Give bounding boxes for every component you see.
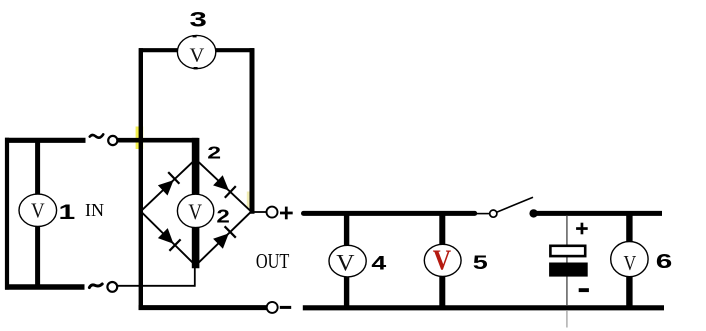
svg-text:2: 2 — [216, 205, 229, 226]
svg-text:V: V — [188, 201, 202, 224]
svg-text:V: V — [336, 251, 355, 277]
svg-text:V: V — [190, 45, 205, 67]
svg-text:3: 3 — [189, 7, 206, 31]
svg-text:OUT: OUT — [256, 249, 290, 273]
svg-text:IN: IN — [85, 200, 104, 220]
svg-text:5: 5 — [473, 252, 488, 273]
svg-text:2: 2 — [207, 142, 221, 163]
svg-text:6: 6 — [656, 251, 673, 273]
svg-text:4: 4 — [371, 252, 386, 274]
svg-text:V: V — [31, 200, 45, 223]
svg-text:V: V — [433, 244, 452, 276]
svg-text:V: V — [624, 251, 637, 275]
svg-text:1: 1 — [59, 199, 76, 224]
